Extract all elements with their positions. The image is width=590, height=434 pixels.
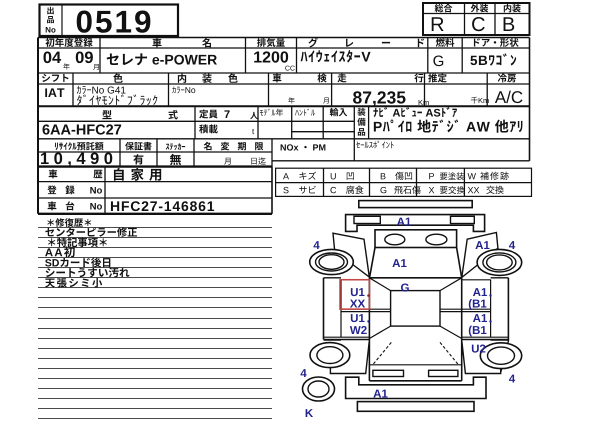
bottom bar (357, 402, 474, 412)
right fender (462, 233, 498, 278)
notes block ruled lines (38, 227, 272, 229)
front top bar (359, 201, 472, 208)
left fender (333, 233, 369, 277)
windshield (370, 248, 376, 278)
row B values (45, 88, 47, 97)
cabin (369, 277, 461, 279)
rear right wheel (480, 343, 521, 369)
row C (102, 110, 111, 119)
row E (49, 169, 58, 178)
row D (55, 143, 58, 150)
auction no box (40, 5, 179, 37)
red box (340, 280, 370, 309)
tail lights (373, 370, 404, 376)
hood (375, 230, 457, 248)
front left wheel (310, 249, 354, 274)
notes text (47, 219, 54, 226)
row A headers (45, 38, 54, 47)
grade box (423, 3, 530, 35)
rear bumper (346, 377, 486, 398)
rear quarter left (330, 342, 369, 374)
rear window dashed (373, 342, 391, 364)
rear quarter right (462, 342, 501, 374)
spare circle K (303, 377, 335, 401)
side body left (323, 278, 325, 340)
legend table (276, 168, 532, 196)
side body right (507, 278, 509, 341)
main table grid (38, 37, 530, 39)
rear left wheel (310, 343, 350, 368)
row B headers (42, 74, 50, 82)
front bumper (346, 215, 485, 232)
row A values (43, 51, 51, 63)
front right wheel (477, 249, 522, 275)
